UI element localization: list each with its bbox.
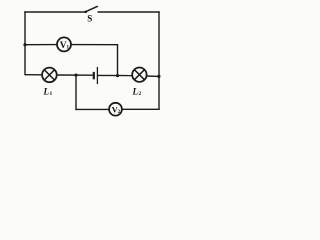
wire V1 row left xyxy=(25,44,57,46)
node junction V2-drop left xyxy=(74,74,77,77)
svg-text:1: 1 xyxy=(66,44,69,50)
node junction left-V1 xyxy=(23,43,26,46)
svg-text:2: 2 xyxy=(118,109,121,115)
svg-text:S: S xyxy=(87,14,92,24)
svg-text:1: 1 xyxy=(50,91,53,97)
lamp L2 xyxy=(131,68,146,97)
lamp L1 xyxy=(42,68,57,97)
battery positive plate (long thin) xyxy=(96,67,98,84)
wire bottom row right of V2 xyxy=(122,108,160,110)
wire middle row: battery to L2 xyxy=(98,74,132,76)
wire V1 row right xyxy=(71,44,118,46)
switch S xyxy=(85,6,98,23)
wire right vertical xyxy=(158,11,160,110)
svg-text:L: L xyxy=(42,86,49,96)
wire bottom row left of V2 xyxy=(75,108,109,110)
svg-text:2: 2 xyxy=(138,91,141,97)
svg-text:L: L xyxy=(131,86,138,96)
wire middle row: left vertical to L1 xyxy=(25,74,43,76)
wire middle row: L2 to right vertical xyxy=(147,75,159,77)
wire top-left segment xyxy=(24,11,85,13)
battery negative plate (short thick) xyxy=(93,72,95,79)
wire V1 drop vertical xyxy=(117,45,119,76)
wire middle row: L1 to battery xyxy=(57,74,93,76)
wire top-right segment xyxy=(98,11,160,13)
node junction right vertical-middle row xyxy=(157,75,160,78)
node junction V1-drop on middle row xyxy=(116,74,119,77)
voltmeter V1 xyxy=(57,37,71,51)
voltmeter V2 xyxy=(109,103,122,116)
wire V2 drop vertical xyxy=(75,75,77,110)
wire left vertical xyxy=(24,11,26,75)
